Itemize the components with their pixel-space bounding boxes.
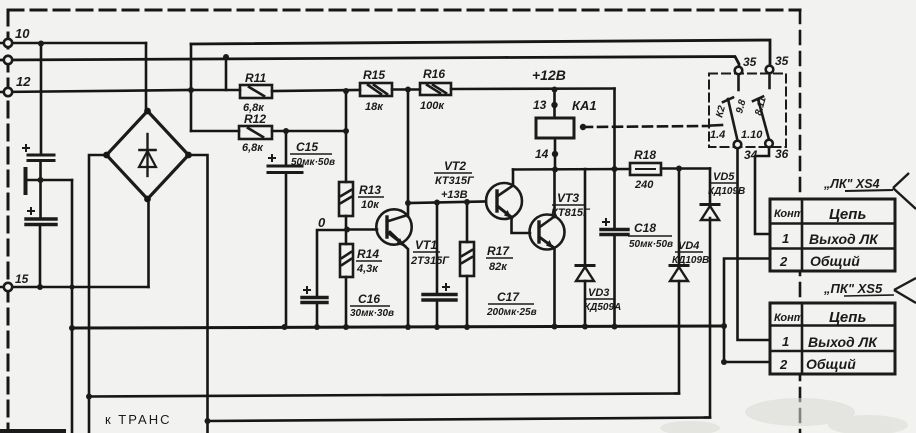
svg-text:VT3: VT3 <box>557 191 579 205</box>
capacitor C16 <box>302 298 327 303</box>
diode VD3 <box>576 266 594 282</box>
svg-text:1: 1 <box>782 231 789 246</box>
wire VT3 collector stub <box>553 170 556 218</box>
wire R12 left jog <box>191 130 239 133</box>
wire relay top column pin13 <box>553 90 556 119</box>
svg-text:VD4: VD4 <box>678 240 699 252</box>
transistor VT2 <box>486 183 522 219</box>
transistor VT1 <box>376 209 411 246</box>
svg-text:13: 13 <box>533 98 547 112</box>
svg-text:2: 2 <box>779 357 788 372</box>
plus sign cap C2 <box>27 207 35 215</box>
wire contact36 to XS4 row1 <box>755 147 770 234</box>
svg-text:35: 35 <box>775 54 789 68</box>
svg-text:КД509А: КД509А <box>584 302 621 313</box>
relay KA1 coil <box>536 118 574 138</box>
svg-text:12: 12 <box>16 74 31 89</box>
wire ground rail <box>72 326 724 328</box>
svg-text:R18: R18 <box>634 148 656 162</box>
border dashed left <box>7 10 10 433</box>
wire A (terminal 10 to bridge top) <box>0 42 146 45</box>
wire VD4 column upper <box>678 169 681 266</box>
wire XS4 row2 to ground <box>724 259 770 363</box>
svg-text:R17: R17 <box>487 244 510 258</box>
label VT2 <box>434 159 475 201</box>
svg-text:КД109В: КД109В <box>708 186 745 197</box>
wire C (net to contact 35 right) <box>191 40 770 64</box>
label VD5 <box>708 171 745 197</box>
wire column x40 lower <box>39 226 42 287</box>
wire node 0 to VT1 base <box>346 228 377 231</box>
terminal 15 <box>4 283 12 291</box>
terminal middle <box>4 56 12 64</box>
svg-text:10к: 10к <box>361 199 380 211</box>
svg-text:50мк·50в: 50мк·50в <box>291 157 335 168</box>
label VD4 <box>672 240 709 266</box>
wire terminal 12 <box>0 90 191 92</box>
bridge rectifier <box>103 108 192 203</box>
connector table XS5 <box>770 303 895 374</box>
border dashed top <box>8 9 800 12</box>
wire bottom y419 <box>208 418 711 422</box>
plus sign C17 <box>442 283 450 291</box>
resistor R11 <box>240 85 272 98</box>
svg-text:VT1: VT1 <box>415 238 437 252</box>
wire column x191 <box>190 44 193 131</box>
contact circle 35 right <box>766 66 774 74</box>
svg-text:18к: 18к <box>365 101 384 113</box>
svg-text:С17: С17 <box>497 290 520 304</box>
wire relay bottom column pin14 <box>554 138 557 170</box>
svg-text:Общий: Общий <box>810 253 860 269</box>
connector table XS4 <box>770 199 895 271</box>
svg-text:+12В: +12В <box>532 67 566 83</box>
wire R17 bottom <box>466 276 469 327</box>
svg-text:КТ815Г: КТ815Г <box>551 207 591 219</box>
scan smudges <box>660 398 908 433</box>
transistor VT3 <box>530 215 565 250</box>
svg-text:С15: С15 <box>296 140 318 154</box>
svg-text:200мк·25в: 200мк·25в <box>486 307 537 318</box>
wire VD5 column lower <box>705 218 710 418</box>
capacitor C1 left top <box>28 155 54 161</box>
svg-text:R15: R15 <box>363 68 385 82</box>
wire B (middle terminal to contact 35 left) <box>0 57 739 68</box>
svg-text:6,8к: 6,8к <box>242 142 264 154</box>
svg-text:35: 35 <box>743 55 757 69</box>
wire VD5 column upper <box>709 169 712 205</box>
wire column x40 middle <box>39 161 42 218</box>
svg-text:R11: R11 <box>245 71 266 85</box>
svg-text:Выход ЛК: Выход ЛК <box>808 334 878 350</box>
label VD3 <box>584 287 621 313</box>
svg-text:к ТРАНС: к ТРАНС <box>105 412 172 427</box>
wire C17 column <box>436 203 439 294</box>
border dashed right <box>799 10 802 433</box>
wire base bus y203 <box>408 202 486 204</box>
wire column x346 (R11 node to R13) <box>345 91 348 182</box>
wire XS5 row2 <box>724 361 771 364</box>
contact circle 36 <box>765 140 773 148</box>
wire VT1 collector <box>407 203 410 217</box>
wire bridge bottom column <box>147 199 150 287</box>
svg-text:100к: 100к <box>420 100 445 112</box>
wire column x614 lower below C18 <box>613 237 616 327</box>
label VT1 <box>410 238 450 267</box>
wire VD3 column lower <box>584 281 587 327</box>
wire column x408 (to VT1 collector node) <box>407 90 410 204</box>
wire bottom y394 <box>89 394 679 397</box>
svg-text:Выход ЛК: Выход ЛК <box>809 231 879 247</box>
svg-text:Конт: Конт <box>774 312 804 324</box>
wire contact34 to XS5 row1 <box>738 148 771 340</box>
wire relay dashed link <box>583 126 709 127</box>
plus sign C15 <box>268 154 276 162</box>
contact link tick <box>711 124 722 127</box>
wire bridge right stub <box>189 155 208 433</box>
contact circle 34 <box>734 141 742 149</box>
label C16 <box>350 292 394 319</box>
svg-text:R13: R13 <box>359 183 381 197</box>
wire VT1 emitter <box>390 232 408 327</box>
svg-text:„ПК" ХS5: „ПК" ХS5 <box>823 281 883 296</box>
connector XS5 title <box>823 278 916 303</box>
wire column x226 to wire B <box>225 57 228 90</box>
svg-text:Цепь: Цепь <box>829 309 866 326</box>
wire R11 right to R15 <box>272 90 360 91</box>
label VT3 <box>551 191 591 219</box>
resistor R13 <box>339 182 353 216</box>
svg-text:14: 14 <box>535 147 549 161</box>
wire terminal 15 <box>0 286 149 289</box>
svg-text:„ЛК" ХS4: „ЛК" ХS4 <box>823 177 880 191</box>
svg-text:+13В: +13В <box>441 189 468 201</box>
wire cap bar link <box>27 179 72 182</box>
svg-text:R16: R16 <box>423 67 445 81</box>
svg-text:КА1: КА1 <box>572 98 597 113</box>
svg-text:10: 10 <box>15 26 30 41</box>
contact switch right <box>753 74 770 140</box>
svg-text:2Т315Г: 2Т315Г <box>410 255 450 267</box>
svg-text:82к: 82к <box>489 261 508 273</box>
resistor R14 <box>340 244 353 277</box>
svg-text:VD3: VD3 <box>588 287 609 299</box>
wire column x614 upper <box>613 89 616 229</box>
diode VD4 <box>670 266 688 282</box>
wire R13 to R14 <box>345 216 348 244</box>
plus sign C18 <box>602 218 610 226</box>
resistor R17 <box>460 242 474 276</box>
svg-text:КТ315Г: КТ315Г <box>435 175 475 187</box>
svg-text:240: 240 <box>634 179 654 191</box>
wire bridge top column <box>145 43 148 112</box>
wire VD4 column lower <box>675 281 679 394</box>
contact switch left <box>723 75 739 141</box>
svg-text:34: 34 <box>744 148 758 162</box>
wire collector bus y169 <box>513 168 630 171</box>
label C18 <box>628 221 673 250</box>
capacitor C2 left bottom <box>26 219 56 225</box>
wire C15 column <box>285 131 288 165</box>
wire VT3 emitter <box>541 238 555 327</box>
svg-text:КД109В: КД109В <box>672 255 709 266</box>
capacitor C17 <box>423 295 456 301</box>
wire column x40 upper <box>40 44 43 155</box>
capacitor bar electrode <box>24 169 28 193</box>
label R17 <box>486 244 513 273</box>
wire node 0 left jog / C16 column <box>317 230 346 296</box>
scan edge bottom left <box>0 429 66 433</box>
svg-text:1.4: 1.4 <box>710 129 725 141</box>
svg-text:Конт: Конт <box>774 208 804 220</box>
svg-text:R14: R14 <box>357 247 379 261</box>
svg-text:0: 0 <box>318 215 326 230</box>
capacitor C18 <box>601 230 628 235</box>
svg-text:36: 36 <box>775 147 789 161</box>
plus sign C16 <box>303 286 311 294</box>
resistor R18 <box>630 163 661 175</box>
wire R11 left feed <box>191 89 240 92</box>
resistor R16 <box>420 83 451 95</box>
capacitor C15 <box>268 166 302 173</box>
label R14 <box>356 247 382 275</box>
connector XS4 title <box>823 173 916 209</box>
svg-text:15: 15 <box>15 272 29 286</box>
svg-text:1.10: 1.10 <box>741 129 763 141</box>
wire column x72 <box>71 180 74 433</box>
svg-text:Общий: Общий <box>806 356 856 372</box>
contact circle 35 left <box>735 67 743 75</box>
svg-text:VT2: VT2 <box>444 159 466 173</box>
terminal 10 <box>4 39 12 47</box>
relay contact block dashed box <box>709 74 786 148</box>
label R13 <box>358 183 384 211</box>
resistor R15 <box>360 83 392 96</box>
svg-text:1: 1 <box>782 334 789 349</box>
wire R15 to R16 <box>392 88 420 91</box>
terminal 12 <box>4 88 12 96</box>
svg-text:С16: С16 <box>358 292 380 306</box>
wire R18 right <box>661 167 710 170</box>
resistor R12 <box>239 126 272 139</box>
plus sign cap C1 <box>22 144 30 152</box>
diode VD5 <box>701 205 719 221</box>
wire R14 bottom <box>345 277 348 327</box>
wire VD3 column upper <box>584 169 587 265</box>
wire bridge left stub <box>89 155 107 433</box>
svg-text:30мк·30в: 30мк·30в <box>350 308 394 319</box>
wire VT2 collector stub <box>512 170 515 186</box>
label C17 <box>486 290 537 318</box>
label C15 <box>290 140 335 168</box>
wire R17 column <box>466 202 469 242</box>
svg-text:4,3к: 4,3к <box>356 263 379 275</box>
wire VT2 emitter to VT3 base <box>499 207 530 233</box>
svg-text:С18: С18 <box>634 221 656 235</box>
svg-text:VD5: VD5 <box>713 171 735 183</box>
svg-text:R12: R12 <box>244 112 266 126</box>
svg-text:50мк·50в: 50мк·50в <box>629 239 673 250</box>
wire R16 to +12V corner <box>451 87 615 90</box>
wire R12 right <box>272 130 346 133</box>
svg-text:2: 2 <box>779 254 788 269</box>
svg-text:Цепь: Цепь <box>829 206 866 223</box>
